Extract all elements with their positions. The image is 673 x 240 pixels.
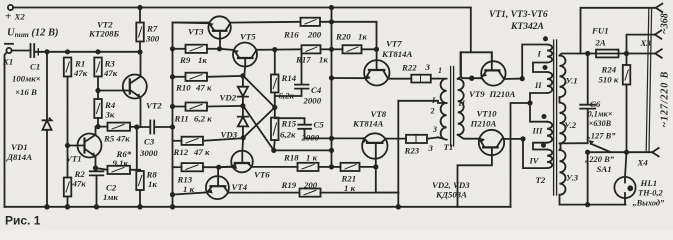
node bus C5 [330,137,333,140]
transformer T2 winding IV [547,150,552,169]
node VT2 emitter C3 [135,125,138,128]
node R1-R2 base [66,144,69,147]
wire T2 I-II link [533,63,547,73]
transistor VT9 [481,61,505,85]
node bus VT4 wire [171,193,174,196]
transformer T2 winding V.1 [560,54,589,98]
node rail T1 tap [397,205,401,209]
resistor R14 [274,50,276,75]
node rail bus [171,205,175,209]
resistor R9 [173,48,186,50]
resistor R19 [300,189,321,197]
wire plus rail C1 to R7 foot [34,51,140,53]
wire bus to VT7 emitter [332,77,366,79]
node R3-R4 VT2 base [96,89,99,92]
wire 220V stub [587,152,589,204]
node T2 phasing dot IV [542,144,545,147]
transistor VT10 [479,130,504,155]
capacitor C6 [580,54,595,144]
capacitor C1 [31,44,35,57]
wire X1 down to bottom rail [5,52,7,207]
transistor VT6 [231,151,253,173]
transformer T2 core [554,40,557,195]
node rail VD1 [45,205,49,209]
wire cross diag VT5 to R15 node [244,77,275,108]
node 220V contact [586,151,589,154]
wire left bus [173,23,209,207]
node VT10 collector [521,137,524,140]
node R9 VT3 emitter [218,47,221,50]
resistor R7 [139,8,141,23]
wire X3 upper [627,35,655,54]
node T2 centre tap [528,101,531,104]
node R14 R15 [273,106,276,109]
node VD2 bottom [241,104,244,107]
wire T2 centre tap to rail [511,103,531,207]
resistor R4 [94,99,102,118]
wire T2 II bottom jog [530,93,547,103]
wire cross diag R14 node to VD3 [243,107,275,137]
node top rail bus [330,6,333,9]
wire VT9 collector to T2 winding I [522,45,547,79]
resistor R13 [173,166,182,168]
resistor R12 [173,140,182,142]
wire VT2 emitter down [136,127,138,170]
node HL1 electrode [628,186,632,190]
transformer T2 winding III [547,122,552,143]
transformer T1 winding I [438,79,446,140]
wire T2 IV bottom to VT10 [523,139,547,168]
resistor R16 [301,18,321,26]
node R21 VT8 collector [374,165,377,168]
switch SA1 blade [591,144,610,152]
node V3 bottom to switch [586,203,589,206]
node rail R8 [138,205,142,209]
resistor R23 [406,135,427,143]
transformer T2 winding V.3 [560,143,626,204]
node R24 top [625,52,628,55]
fuse FU1 [596,50,619,58]
wire emitter to R6 [96,168,108,170]
node VD3 bottom [242,136,245,139]
transistor VT8 [362,133,387,158]
diode VD3 [238,106,248,138]
capacitor C3 [137,121,173,134]
node VT9 collector [521,77,524,80]
resistor R1 [64,58,72,77]
resistor R15 [274,107,276,117]
wire 368V top [581,8,656,54]
node VT5 collector R17 [273,48,276,51]
resistor R11 [173,106,186,108]
node bus C3 [171,125,174,128]
node bus R16 [330,20,333,23]
resistor R6 [108,166,131,174]
wire T1 pin2 tap [398,101,446,103]
transistor VT2 [123,75,147,99]
node bus R11 [171,105,174,108]
SECTION:TEXT [0,0,1,1]
node T1 II phasing dot [470,76,474,80]
transformer T2 winding I [547,45,552,63]
wire T1 II top to VT9 base [461,77,481,78]
node VD1 top [45,50,48,53]
resistor R24 [626,54,628,66]
diode VD2 [238,76,248,106]
resistor R3 [94,58,102,77]
resistor R20 [332,48,343,50]
wire to VT2 base [98,90,130,92]
wire cross diag VD2 to R15 bottom [244,107,274,151]
wire T2 III top jog [530,103,547,122]
node VT1 emitter [94,166,97,169]
node T2 phasing dot II [543,66,546,69]
wire feedback bus [331,8,333,167]
wire VT10 emitter to frame [458,155,492,207]
node rail R2 [66,205,70,209]
wire R15 bottom to bus [274,149,332,151]
resistor R2 [67,146,69,178]
terminal arrow 368V [656,4,663,12]
wire X1 to C1 [12,50,31,52]
node bus VT7 wire [330,76,333,79]
wire T2 III-IV link [533,143,547,150]
resistor R21 [332,166,341,168]
terminal X1 [6,48,11,53]
node R1 top [66,50,69,53]
node bus R17 R20 [330,48,333,51]
terminal arrow X3 upper [655,30,662,38]
node bus R9 [171,47,174,50]
node T2 phasing dot I [544,37,547,40]
wire R16 corner to VT7 base [376,22,378,50]
node T2 phasing dot III [542,115,545,118]
capacitor C4 [275,49,309,96]
node bus R10 [171,75,174,78]
transistor VT1 [78,134,102,158]
node bus R18 R21 [330,165,333,168]
node R4 bottom [96,125,99,128]
transistor VT4 [206,176,229,199]
resistor R5 [108,123,131,131]
resistor R10 [173,76,186,78]
bottom rail [5,206,511,208]
node R24 HL1 X4 [625,151,628,154]
node R15 bottom [272,149,275,152]
wire VT1 collector to R5 [96,127,108,135]
wire rail corner down to driver feed [461,8,492,75]
transistor VT3 [208,16,230,38]
transistor VT5 [233,43,257,67]
wire output pair vertical [646,9,651,151]
wire T1 centre tap down to rail [397,101,399,207]
node R3 top [96,50,99,53]
terminal arrow X3 lower [655,49,662,57]
zener VD1 [43,52,52,207]
wire top rail [13,7,471,9]
node bus R15 wire [330,149,333,152]
transformer T2 winding V.2 [560,97,588,143]
terminal arrow X4 [652,148,659,156]
resistor R17 [275,48,302,50]
capacitor C2 [90,168,104,207]
terminal X2 [8,5,13,10]
node R7 bottom VT2 collector [138,50,141,53]
resistor R18 [298,163,319,171]
transformer T2 winding II [547,72,552,93]
node C6 top [586,52,589,55]
resistor R22 [411,75,431,83]
transformer T1 core [451,67,454,147]
transformer T1 winding II [458,52,480,138]
node VT5 emitter VD2 [241,74,244,77]
wire VT8 collector L to rail tap [376,167,399,193]
node R20 VT7 base [375,48,378,51]
transistor VT7 [364,60,389,85]
node R13 VT4 base [217,166,220,169]
wire X4 [588,151,653,153]
resistor R8 [139,170,141,171]
node rail C2 [95,205,99,209]
node top rail R7 [138,6,141,9]
lamp HL1 [614,177,635,198]
capacitor C5 [275,118,332,138]
